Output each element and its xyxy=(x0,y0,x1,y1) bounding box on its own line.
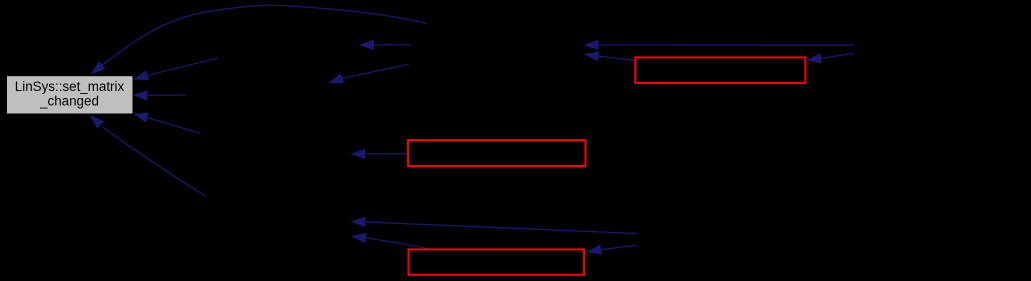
edge from caller into main node bottom-right xyxy=(134,113,201,133)
edge from red box 3 top to invisible caller node xyxy=(352,233,429,249)
edge into invisible caller node (upper middle, horizontal) xyxy=(360,40,410,50)
edge from lower-right caller into red box 3 xyxy=(587,245,637,254)
edge from far-right caller into invisible node above red box 1 xyxy=(584,40,854,50)
edge from lower-right caller into invisible node (long) xyxy=(351,217,637,234)
edge from caller into main node top-right xyxy=(134,58,219,80)
svg-text:_changed: _changed xyxy=(39,93,99,108)
node red box 3 (truncated caller, bottom) xyxy=(409,249,585,274)
node red box 1 (truncated caller, top right) xyxy=(635,57,805,83)
svg-text:LinSys::set_matrix: LinSys::set_matrix xyxy=(15,79,125,94)
node LinSys::set_matrix_changed (current function, grey) xyxy=(7,76,134,114)
edge from red box 2 to invisible caller node xyxy=(351,149,407,159)
node red box 2 (truncated caller, middle) xyxy=(408,140,585,166)
edge into invisible caller node (upper middle, diagonal) xyxy=(329,64,409,83)
edge curving from lower caller into main node bottom xyxy=(90,115,206,196)
edge arc from top-right caller into main node top xyxy=(91,5,427,74)
edge from red box 1 to invisible node at its left xyxy=(585,52,634,62)
edge from caller into main node right (horizontal) xyxy=(134,91,187,101)
edge from far-right caller into red box 1 xyxy=(807,53,854,63)
